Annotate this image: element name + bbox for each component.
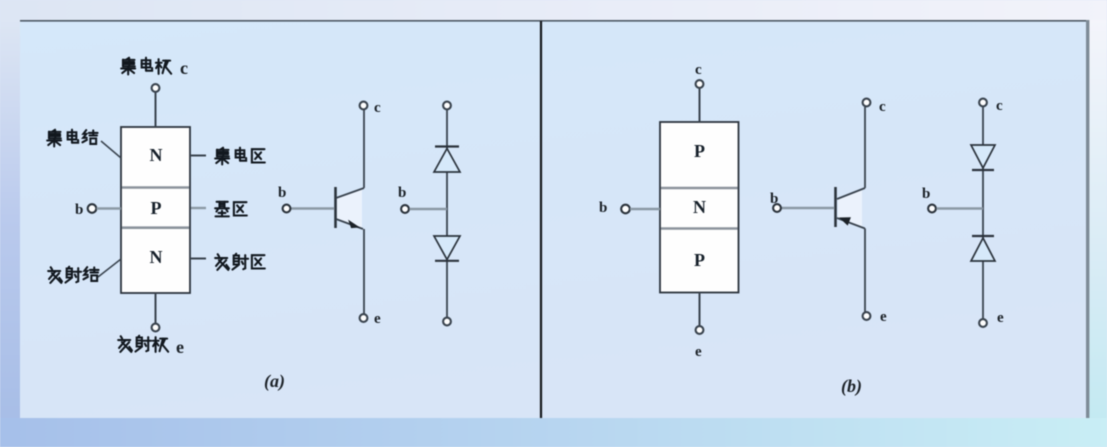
svg-text:b: b bbox=[770, 191, 778, 207]
svg-text:c: c bbox=[996, 98, 1003, 114]
svg-text:b: b bbox=[398, 185, 406, 201]
svg-text:e: e bbox=[176, 337, 184, 357]
svg-text:e: e bbox=[695, 344, 702, 360]
svg-text:b: b bbox=[75, 202, 83, 218]
svg-text:c: c bbox=[695, 62, 702, 78]
svg-text:e: e bbox=[374, 311, 381, 327]
svg-text:b: b bbox=[922, 186, 930, 202]
svg-text:e: e bbox=[997, 310, 1004, 326]
svg-text:N: N bbox=[150, 145, 163, 165]
svg-text:b: b bbox=[599, 200, 607, 216]
svg-text:c: c bbox=[180, 58, 188, 78]
svg-text:N: N bbox=[693, 197, 706, 217]
svg-text:N: N bbox=[150, 247, 163, 267]
svg-text:P: P bbox=[694, 141, 705, 161]
svg-text:b: b bbox=[278, 185, 286, 201]
svg-text:(b): (b) bbox=[841, 376, 862, 397]
svg-text:c: c bbox=[374, 100, 381, 116]
svg-text:P: P bbox=[151, 198, 162, 218]
svg-text:e: e bbox=[880, 309, 887, 325]
svg-text:P: P bbox=[694, 250, 705, 270]
svg-text:(a): (a) bbox=[264, 371, 285, 392]
svg-text:c: c bbox=[879, 99, 886, 115]
